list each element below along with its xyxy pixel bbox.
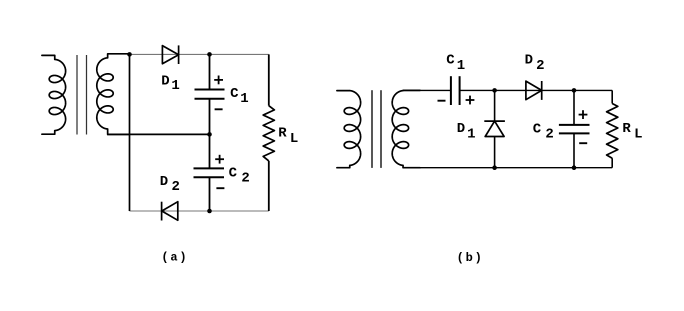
svg-text:(b): (b) [457, 251, 484, 265]
svg-text:C: C [230, 86, 239, 102]
svg-text:L: L [290, 131, 298, 147]
svg-text:1: 1 [171, 78, 179, 94]
svg-text:C: C [533, 122, 542, 138]
svg-text:D: D [160, 174, 168, 190]
svg-text:D: D [457, 121, 465, 137]
svg-text:2: 2 [241, 171, 249, 187]
svg-text:1: 1 [240, 91, 248, 107]
svg-text:2: 2 [536, 58, 544, 74]
svg-text:D: D [525, 53, 533, 69]
svg-text:1: 1 [467, 127, 475, 143]
svg-text:2: 2 [171, 179, 179, 195]
svg-text:(a): (a) [161, 251, 188, 265]
svg-text:2: 2 [545, 126, 553, 142]
svg-text:C: C [446, 53, 455, 69]
svg-text:D: D [161, 74, 169, 90]
svg-text:R: R [622, 121, 631, 137]
svg-text:1: 1 [457, 58, 465, 74]
svg-text:C: C [229, 165, 238, 181]
svg-text:L: L [634, 126, 642, 142]
svg-text:R: R [278, 125, 287, 141]
